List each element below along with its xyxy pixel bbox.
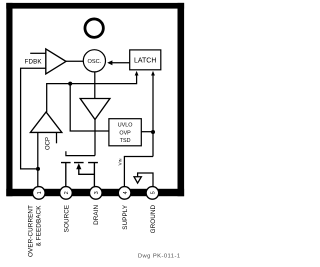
svg-text:4: 4 — [123, 191, 129, 194]
node junction UVLO/supply — [151, 130, 155, 134]
package outline frame right — [178, 3, 185, 196]
transistor Q1 drain contact — [88, 163, 98, 187]
svg-text:GROUND: GROUND — [150, 204, 157, 233]
wire OSC output to driver input — [94, 72, 96, 99]
svg-text:& FEEDBACK: & FEEDBACK — [35, 205, 42, 247]
svg-text:SUPPLY: SUPPLY — [122, 204, 129, 230]
arrowhead into LATCH input 1 — [135, 71, 139, 76]
svg-text:1: 1 — [37, 191, 43, 194]
svg-text:5: 5 — [151, 191, 157, 194]
svg-text:3: 3 — [94, 191, 100, 194]
wire pin4 SUPPLY to rail — [124, 157, 153, 187]
svg-text:OCP: OCP — [45, 137, 51, 150]
node junction pin1/OCP — [36, 167, 40, 171]
transistor Q1 body contact with arrow — [74, 163, 94, 175]
op-amp FDBK error amplifier — [46, 49, 66, 74]
pin 1 — [33, 187, 46, 200]
svg-text:FDBK: FDBK — [25, 58, 43, 65]
svg-text:DRAIN: DRAIN — [93, 204, 100, 224]
pin 4 — [118, 187, 131, 200]
pin 3 — [90, 187, 103, 200]
svg-text:SOURCE: SOURCE — [63, 205, 70, 233]
wire FDBK amp output to OSC — [66, 60, 84, 62]
pin 5 — [146, 187, 159, 200]
wire branch to UVLO input — [70, 84, 109, 131]
node junction feedback/UVLO branch — [68, 82, 72, 86]
wire FDBK non-inverting input stub — [30, 52, 46, 54]
wire LATCH output to OSC with arrow — [111, 62, 130, 64]
svg-text:TSD: TSD — [120, 138, 131, 144]
latch block LATCH — [130, 50, 161, 70]
wire OCP output to LATCH input 1 — [47, 75, 137, 112]
block UVLO OVP TSD — [109, 119, 141, 146]
wire pin1 to FDBK inverting input — [21, 68, 46, 187]
wire UVLO to supply rail — [141, 131, 153, 133]
svg-text:OVER-CURRENT: OVER-CURRENT — [27, 205, 34, 257]
svg-text:OVP: OVP — [119, 130, 131, 136]
wire OCP right input stub — [56, 132, 58, 143]
logo circle — [85, 19, 103, 37]
pin 2 — [60, 187, 73, 200]
transistor Q1 source contact — [61, 163, 71, 187]
package outline frame left — [6, 3, 12, 196]
gate driver buffer — [80, 99, 110, 120]
svg-text:LATCH: LATCH — [134, 57, 156, 64]
wire supply rail to LATCH input 2 — [152, 75, 154, 156]
wire pin5 GROUND to internal ground — [138, 173, 153, 187]
package outline frame top — [6, 3, 184, 9]
comparator OCP — [30, 112, 61, 132]
wire OCP left input from pin1 node — [37, 132, 39, 169]
transistor Q1 gate plate — [66, 151, 95, 155]
package outline frame bottom — [6, 189, 184, 196]
svg-text:OSC.: OSC. — [88, 59, 102, 65]
svg-text:UVLO: UVLO — [118, 123, 133, 129]
arrowhead into LATCH input 2 — [151, 71, 155, 76]
svg-text:Dwg PK-011-1: Dwg PK-011-1 — [138, 254, 181, 260]
svg-text:2: 2 — [64, 191, 70, 194]
oscillator OSC — [83, 50, 105, 72]
wire driver output to gate — [94, 120, 96, 156]
ground arrow symbol — [134, 177, 141, 183]
